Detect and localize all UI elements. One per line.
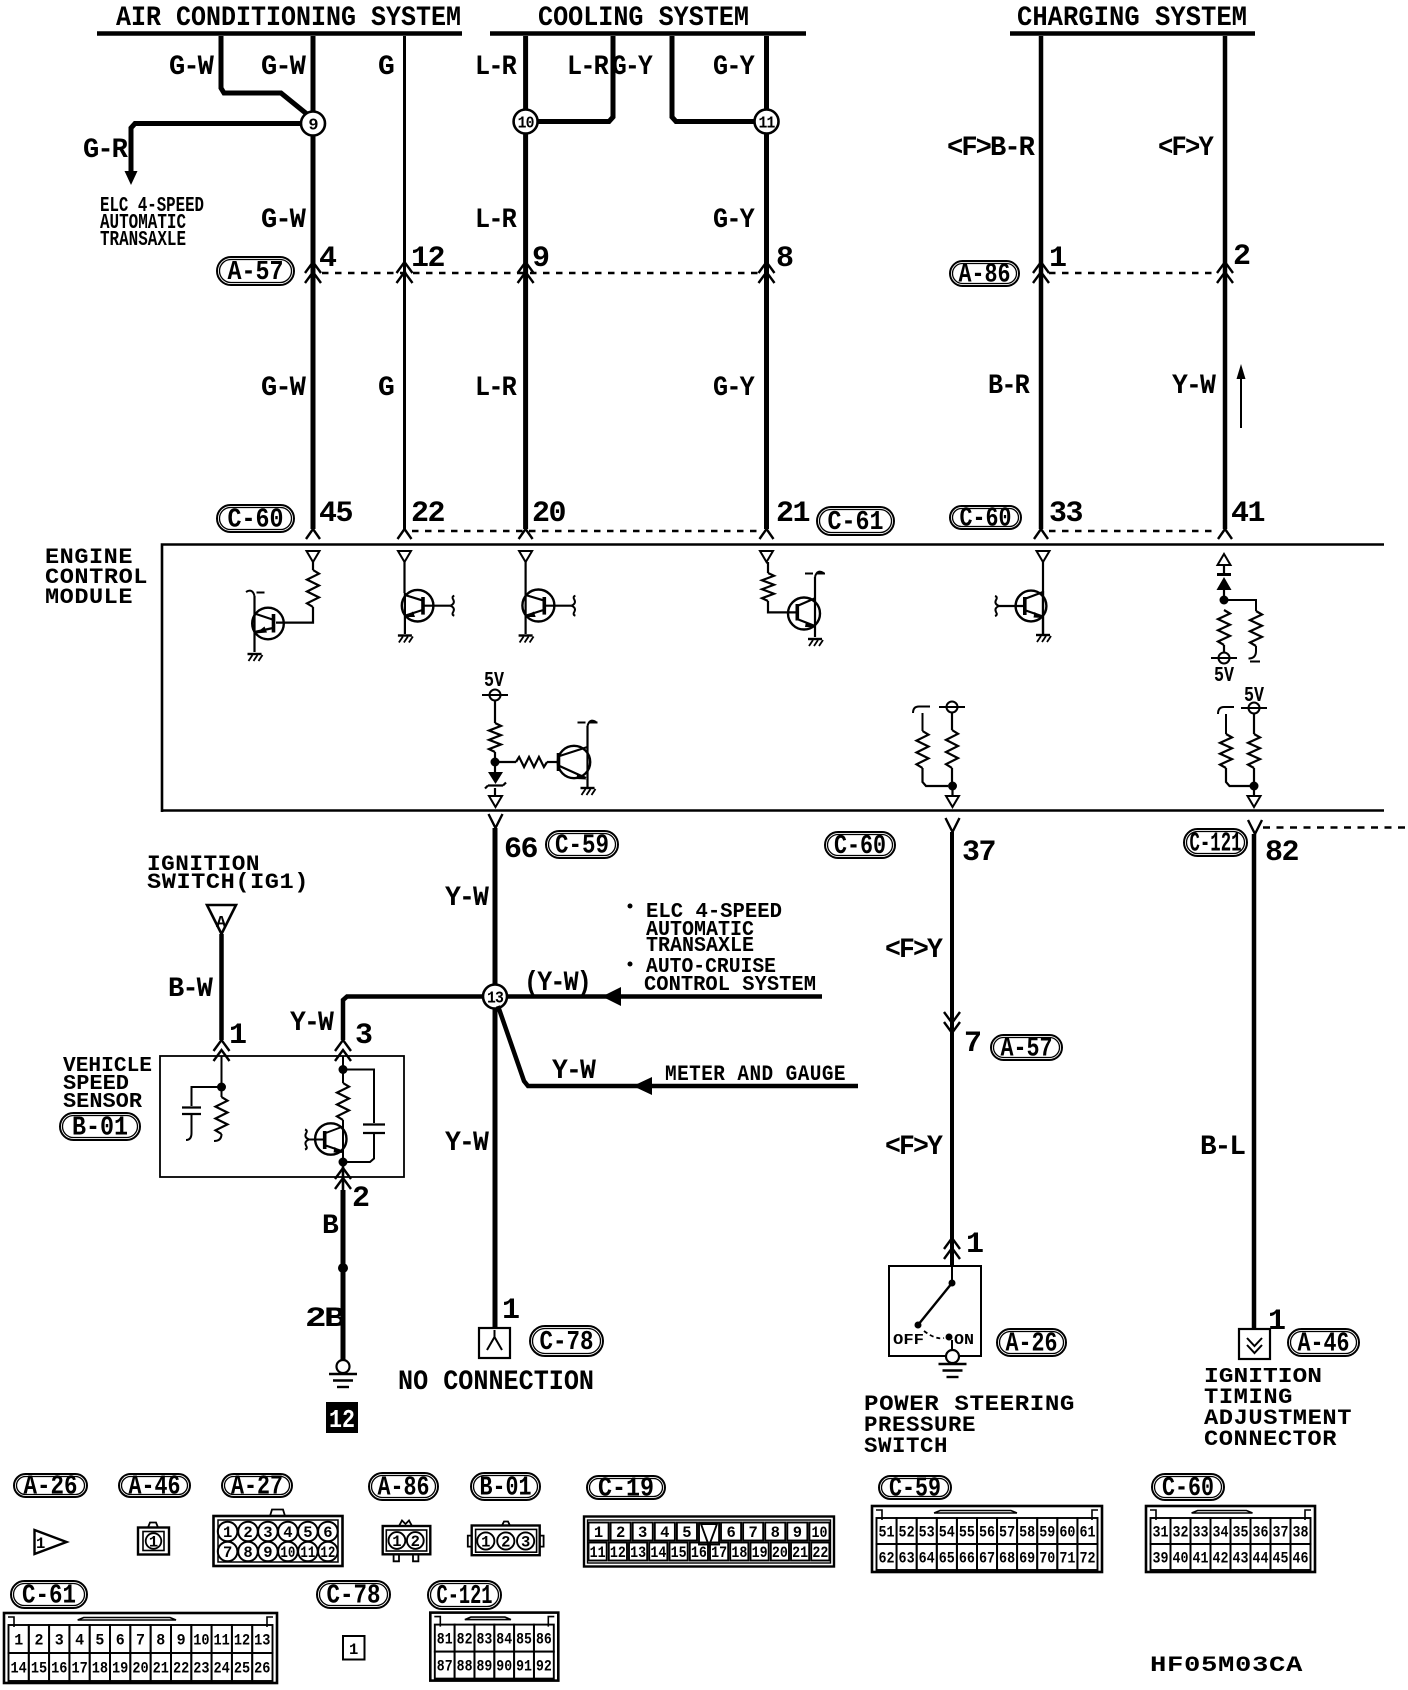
svg-text:89: 89: [476, 1658, 492, 1676]
svg-text:6: 6: [323, 1524, 332, 1542]
diode D41: [1217, 573, 1231, 576]
svg-text:6: 6: [726, 1524, 735, 1542]
ECM box outline: [162, 545, 1384, 813]
svg-text:1: 1: [966, 1228, 983, 1262]
wire R82a to junction: [1226, 768, 1250, 786]
connector label C-59: [879, 1476, 951, 1499]
svg-text:1: 1: [481, 1534, 490, 1552]
svg-text:C-61: C-61: [828, 508, 884, 538]
connector label A-46: [119, 1474, 190, 1497]
wire G-W main drop: [311, 36, 316, 112]
dashed travel arc: [924, 1331, 944, 1338]
resistor sensor R2: [342, 1070, 344, 1084]
junction dot sensor pin2: [339, 1158, 348, 1167]
wire diode to junction: [1223, 590, 1225, 600]
svg-text:C-60: C-60: [960, 505, 1012, 535]
wire pin2 exit: [342, 1162, 345, 1190]
connector label C-61: [817, 507, 894, 535]
wire Y-W from node13 to sensor pin3: [343, 997, 483, 1041]
svg-text:37: 37: [962, 836, 995, 870]
svg-text:A-27: A-27: [231, 1473, 283, 1503]
svg-text:11: 11: [300, 1544, 315, 1562]
svg-text:4: 4: [283, 1524, 292, 1542]
connector label A-27: [222, 1474, 292, 1497]
svg-text:83: 83: [476, 1631, 492, 1649]
wire Y-W to meter and gauge: [498, 1006, 858, 1086]
svg-text:A-26: A-26: [1006, 1330, 1058, 1360]
svg-text:C-60: C-60: [1162, 1474, 1214, 1504]
node 10 junction: [514, 110, 538, 134]
wire L-R branch into node 10: [538, 36, 613, 122]
svg-text:HF05M03CA: HF05M03CA: [1150, 1653, 1303, 1678]
svg-text:91: 91: [516, 1658, 532, 1676]
svg-text:13: 13: [630, 1544, 646, 1562]
power steering pressure switch box: [889, 1266, 981, 1356]
svg-text:C-60: C-60: [228, 506, 284, 536]
svg-text:L-R: L-R: [567, 52, 609, 83]
svg-text:10: 10: [193, 1632, 209, 1650]
svg-text:A-86: A-86: [378, 1474, 430, 1504]
svg-text:20: 20: [772, 1544, 788, 1562]
svg-text:SENSOR: SENSOR: [63, 1091, 142, 1114]
svg-text:72: 72: [1079, 1550, 1095, 1568]
svg-text:SWITCH(IG1): SWITCH(IG1): [147, 870, 309, 895]
svg-text:A-57: A-57: [1001, 1035, 1053, 1065]
svg-text:11: 11: [214, 1632, 230, 1650]
svg-text:MODULE: MODULE: [45, 585, 133, 610]
svg-text:2: 2: [352, 1182, 369, 1216]
transistor Q33: [1042, 591, 1044, 634]
svg-text:Y-W: Y-W: [445, 1128, 489, 1159]
svg-text:Y-W: Y-W: [1172, 371, 1216, 402]
svg-text:51: 51: [878, 1524, 894, 1542]
svg-text:36: 36: [1253, 1524, 1269, 1542]
junction dot pin37: [948, 782, 957, 791]
junction dot ground wire: [338, 1263, 348, 1273]
svg-text:22: 22: [812, 1544, 828, 1562]
svg-text:38: 38: [1293, 1524, 1309, 1542]
svg-text:Y-W: Y-W: [290, 1008, 334, 1039]
svg-text:7: 7: [223, 1544, 232, 1562]
svg-text:C-61: C-61: [22, 1582, 76, 1612]
svg-text:12: 12: [411, 242, 444, 276]
svg-text:TRANSAXLE: TRANSAXLE: [646, 935, 754, 958]
svg-text:2B: 2B: [305, 1304, 346, 1335]
transistor Q21: [814, 577, 816, 637]
bullet ELC: [628, 904, 633, 909]
chevrons sensor pin 3: [335, 1040, 351, 1061]
svg-text:8: 8: [771, 1524, 780, 1542]
svg-text:52: 52: [899, 1524, 915, 1542]
ECM pin 66 output triangle: [489, 796, 502, 807]
wire fork pin 37 below ECM: [946, 818, 960, 832]
vehicle speed sensor box: [160, 1056, 404, 1177]
ECM pin 37 output triangle: [946, 796, 959, 807]
svg-text:L-R: L-R: [475, 373, 517, 404]
wire junction to pin: [1253, 786, 1255, 796]
wire L-R drop to node 10: [523, 36, 528, 110]
resistor R41a: [1218, 610, 1230, 645]
svg-text:8: 8: [776, 242, 793, 276]
svg-text:C-121: C-121: [1190, 830, 1242, 860]
wire G-Y branch into node 11: [672, 36, 754, 122]
no connection terminal box C-78: [479, 1328, 510, 1358]
svg-text:A-46: A-46: [129, 1473, 181, 1503]
svg-text:39: 39: [1153, 1550, 1169, 1568]
wire Y-W pin66 down to node 13: [493, 828, 498, 1328]
svg-text:4: 4: [75, 1632, 84, 1650]
connector C-19 symbol: [584, 1517, 834, 1567]
connector label C-59: [546, 831, 618, 858]
wire resistor to junction: [494, 752, 496, 762]
svg-text:C-19: C-19: [598, 1475, 654, 1505]
svg-text:G: G: [378, 52, 394, 83]
resistor sensor R1: [221, 1087, 223, 1097]
connector label A-57 inline: [991, 1035, 1062, 1060]
svg-text:9: 9: [177, 1632, 186, 1650]
wire supply to resistor: [494, 701, 496, 724]
connector label C-60 right: [950, 506, 1021, 529]
svg-text:22: 22: [411, 497, 444, 531]
direction arrow up: [1240, 378, 1242, 428]
svg-text:1: 1: [149, 1534, 158, 1552]
svg-text:7: 7: [136, 1632, 145, 1650]
svg-text:METER AND GAUGE: METER AND GAUGE: [665, 1062, 846, 1087]
wire pin3 inside sensor: [342, 1056, 344, 1070]
svg-text:C-78: C-78: [540, 1328, 594, 1358]
wire pin22 to transistor: [403, 562, 405, 593]
svg-text:19: 19: [112, 1660, 128, 1678]
wire pin45 to resistor: [312, 562, 314, 570]
svg-text:B-01: B-01: [72, 1114, 128, 1144]
svg-text:31: 31: [1153, 1524, 1169, 1542]
svg-text:Y-W: Y-W: [445, 883, 489, 914]
svg-text:62: 62: [878, 1550, 894, 1568]
wire to supply: [1223, 645, 1225, 653]
svg-text:41: 41: [1231, 497, 1264, 531]
svg-text:1: 1: [349, 1641, 358, 1659]
wire R37a to junction: [923, 768, 949, 786]
wire R37b to junction: [951, 768, 953, 786]
node 11 junction: [755, 110, 779, 134]
wire zener to pin triangle: [494, 788, 496, 796]
ECM pin 45 input triangle: [307, 551, 320, 562]
svg-text:46: 46: [1293, 1550, 1309, 1568]
resistor R82b: [1248, 734, 1260, 768]
svg-text:1: 1: [229, 1019, 246, 1053]
chevrons A-57 pin 7: [944, 1012, 960, 1033]
svg-text:68: 68: [999, 1550, 1015, 1568]
wire resistor to base: [276, 607, 313, 623]
chevrons sensor pin 2: [335, 1168, 351, 1189]
chevrons pin 12: [397, 262, 413, 283]
svg-text:15: 15: [671, 1544, 687, 1562]
svg-text:AIR CONDITIONING SYSTEM: AIR CONDITIONING SYSTEM: [116, 3, 461, 34]
svg-text:57: 57: [999, 1524, 1015, 1542]
svg-text:3: 3: [355, 1019, 372, 1053]
wire Y-W drop: [1223, 36, 1228, 529]
svg-text:2: 2: [616, 1524, 625, 1542]
svg-text:G: G: [378, 373, 394, 404]
svg-text:5: 5: [682, 1524, 691, 1542]
arrowhead into node13: [602, 987, 621, 1006]
svg-text:7: 7: [749, 1524, 758, 1542]
resistor R37b: [946, 730, 958, 768]
svg-text:3: 3: [638, 1524, 647, 1542]
svg-text:14: 14: [650, 1544, 666, 1562]
svg-text:41: 41: [1193, 1550, 1209, 1568]
switch contact and lever: [951, 1266, 953, 1281]
svg-text:1: 1: [223, 1524, 232, 1542]
bullet AUTO-CRUISE: [628, 962, 633, 967]
svg-text:54: 54: [939, 1524, 955, 1542]
body ground 12: [337, 1360, 350, 1373]
connector A-26 symbol: [35, 1530, 67, 1554]
svg-text:CHARGING SYSTEM: CHARGING SYSTEM: [1017, 3, 1247, 34]
hook above R37a: [913, 707, 930, 732]
wire supply to R82b: [1253, 714, 1255, 734]
resistor R41b: [1250, 611, 1262, 646]
svg-text:TRANSAXLE: TRANSAXLE: [100, 229, 186, 252]
chevrons pin 2: [1217, 262, 1233, 283]
svg-text:L-R: L-R: [475, 52, 517, 83]
svg-text:10: 10: [518, 115, 535, 134]
dashed line C-121: [1263, 826, 1408, 828]
connector C-60 symbol: [1146, 1506, 1315, 1572]
svg-text:12: 12: [320, 1544, 335, 1562]
svg-text:16: 16: [691, 1544, 707, 1562]
svg-text:G-R: G-R: [83, 135, 128, 166]
svg-text:82: 82: [1265, 836, 1298, 870]
svg-text:20: 20: [532, 497, 565, 531]
connector label A-26: [14, 1474, 87, 1497]
wire junction to pin: [951, 786, 953, 796]
wire G-W below node 9: [311, 135, 316, 529]
svg-text:20: 20: [132, 1660, 148, 1678]
svg-text:B-W: B-W: [168, 974, 213, 1005]
svg-text:B: B: [322, 1211, 339, 1242]
svg-text:L-R: L-R: [475, 205, 517, 236]
wire B-R drop: [1039, 36, 1044, 529]
wire fork pin 82 below ECM: [1248, 820, 1262, 834]
connector label C-60: [1152, 1474, 1224, 1500]
svg-text:43: 43: [1233, 1550, 1249, 1568]
wire G-R to ELC transaxle: [131, 124, 302, 173]
connector label C-121: [428, 1581, 501, 1609]
connector label B-01: [60, 1113, 140, 1140]
svg-text:G-W: G-W: [261, 52, 306, 83]
svg-text:11: 11: [759, 115, 776, 134]
svg-text:C-60: C-60: [834, 832, 886, 862]
wire B-W: [219, 934, 224, 1040]
svg-text:88: 88: [457, 1658, 473, 1676]
svg-text:4: 4: [319, 242, 337, 276]
chevrons pin 9: [518, 262, 534, 283]
svg-text:3: 3: [521, 1534, 530, 1552]
connector C-61 symbol: [4, 1613, 277, 1683]
node 13 junction: [483, 985, 507, 1009]
connector label C-61: [11, 1581, 87, 1608]
ground Q66 emitter: [581, 787, 595, 789]
wire to right resistor: [1224, 600, 1256, 611]
connector A-46 symbol: [148, 1523, 158, 1528]
connector C-78 symbol: [343, 1636, 365, 1660]
svg-text:40: 40: [1173, 1550, 1189, 1568]
svg-text:65: 65: [939, 1550, 955, 1568]
svg-text:21: 21: [776, 497, 809, 531]
svg-text:10: 10: [280, 1544, 295, 1562]
svg-text:9: 9: [532, 242, 549, 276]
ground Q22 emitter: [398, 634, 412, 636]
dashed line A-86: [1049, 272, 1217, 274]
svg-text:SWITCH: SWITCH: [864, 1434, 948, 1459]
connector label C-121 mid: [1184, 829, 1247, 856]
svg-text:23: 23: [193, 1660, 209, 1678]
svg-text:13: 13: [487, 990, 504, 1009]
wire supply to R37b: [951, 713, 953, 730]
junction dot pin82: [1250, 782, 1259, 791]
svg-text:6: 6: [116, 1632, 125, 1650]
svg-text:9: 9: [308, 117, 318, 136]
svg-text:53: 53: [919, 1524, 935, 1542]
ignition timing adjustment connector box A-46: [1239, 1329, 1270, 1359]
svg-text:CONNECTOR: CONNECTOR: [1204, 1427, 1337, 1452]
arrowhead G-R: [125, 171, 138, 185]
svg-text:G-W: G-W: [169, 52, 214, 83]
svg-text:<F>Y: <F>Y: [1158, 133, 1214, 164]
junction dot sensor pin3: [339, 1065, 348, 1074]
ground Q21 emitter: [808, 638, 822, 640]
svg-text:NO CONNECTION: NO CONNECTION: [398, 1367, 594, 1398]
connector label C-60 mid: [825, 832, 895, 858]
svg-text:C-121: C-121: [437, 1582, 493, 1612]
svg-text:2: 2: [411, 1533, 420, 1551]
svg-text:1: 1: [1049, 242, 1066, 276]
svg-text:A-26: A-26: [24, 1473, 78, 1503]
svg-text:B-R: B-R: [988, 371, 1030, 402]
junction dot: [1220, 596, 1229, 605]
resistor pin 45: [307, 570, 319, 607]
svg-text:16: 16: [51, 1660, 67, 1678]
connector A-27 symbol: [270, 1510, 285, 1517]
connector label A-46 inline: [1288, 1329, 1359, 1356]
wire L-R below node 10: [523, 133, 528, 529]
wire end fork pin 45: [306, 529, 320, 539]
dashed line C-60 right: [1049, 530, 1217, 532]
svg-text:1: 1: [502, 1294, 519, 1328]
svg-text:B-L: B-L: [1200, 1132, 1245, 1163]
chevrons switch pin 1: [944, 1238, 960, 1259]
connector label A-86: [950, 261, 1019, 286]
svg-text:87: 87: [437, 1658, 453, 1676]
transistor Q22: [404, 593, 406, 634]
switch ground: [951, 1340, 953, 1350]
svg-text:70: 70: [1039, 1550, 1055, 1568]
ECM pin 41 output triangle: [1218, 554, 1231, 565]
connector label C-78 inline: [530, 1326, 603, 1356]
connector label A-26 inline: [997, 1329, 1066, 1356]
svg-text:56: 56: [979, 1524, 995, 1542]
5V supply pin41: [1219, 653, 1230, 664]
svg-text:A-57: A-57: [228, 258, 284, 288]
supply pin37: [947, 702, 958, 713]
svg-text:35: 35: [1233, 1524, 1249, 1542]
svg-text:17: 17: [71, 1660, 87, 1678]
svg-text:24: 24: [214, 1660, 230, 1678]
svg-text:C-59: C-59: [889, 1475, 941, 1505]
base resistor R66b: [499, 761, 516, 763]
ground Q45 emitter: [248, 653, 262, 655]
connector B-01 symbol: [502, 1522, 510, 1526]
svg-text:OFF: OFF: [893, 1332, 924, 1349]
ECM pin 20 input triangle: [519, 551, 532, 562]
ECM pin 22 input triangle: [398, 551, 411, 562]
svg-text:G-Y: G-Y: [713, 52, 755, 83]
svg-text:1: 1: [36, 1535, 45, 1553]
svg-text:10: 10: [812, 1524, 828, 1542]
arrowhead meter: [633, 1077, 652, 1095]
ECM pin 33 input triangle: [1037, 551, 1050, 562]
ignition feed triangle A: [207, 905, 236, 934]
svg-text:11: 11: [590, 1544, 606, 1562]
svg-text:<F>B-R: <F>B-R: [947, 133, 1035, 164]
svg-text:G-Y: G-Y: [612, 52, 653, 83]
svg-text:63: 63: [899, 1550, 915, 1568]
svg-text:7: 7: [964, 1027, 981, 1061]
svg-text:21: 21: [792, 1544, 808, 1562]
chevrons sensor pin 1: [214, 1040, 230, 1061]
svg-text:71: 71: [1059, 1550, 1075, 1568]
wire G-Y below node 11: [764, 133, 769, 529]
svg-text:14: 14: [11, 1660, 27, 1678]
svg-text:84: 84: [496, 1631, 512, 1649]
junction dot pin66: [491, 758, 500, 767]
ground Q20 emitter: [519, 634, 533, 636]
supply pin82: [1249, 703, 1260, 714]
svg-text:9: 9: [263, 1544, 272, 1562]
svg-text:13: 13: [254, 1632, 270, 1650]
svg-text:66: 66: [959, 1550, 975, 1568]
connector label B-01: [471, 1473, 540, 1500]
wire G-Y drop to node 11: [764, 36, 769, 110]
svg-text:2: 2: [501, 1534, 510, 1552]
dashed line C-60 left: [412, 530, 760, 532]
svg-text:8: 8: [243, 1544, 252, 1562]
connector A-86 symbol: [399, 1521, 412, 1527]
svg-text:69: 69: [1019, 1550, 1035, 1568]
svg-text:17: 17: [711, 1544, 727, 1562]
connector label C-60 left: [217, 505, 294, 532]
svg-text:5: 5: [303, 1524, 312, 1542]
svg-text:G-W: G-W: [261, 205, 306, 236]
svg-text:(Y-W): (Y-W): [524, 968, 590, 999]
connector C-121 symbol: [430, 1613, 558, 1681]
transistor Q45: [253, 596, 255, 652]
svg-text:66: 66: [504, 833, 537, 867]
svg-text:2: 2: [243, 1524, 252, 1542]
svg-text:<F>Y: <F>Y: [885, 935, 943, 966]
svg-text:18: 18: [731, 1544, 747, 1562]
svg-text:COOLING SYSTEM: COOLING SYSTEM: [538, 3, 749, 34]
svg-text:25: 25: [234, 1660, 250, 1678]
hook above R82a: [1218, 707, 1234, 734]
wire pin33 to transistor: [1042, 562, 1044, 591]
ECM pin 82 output triangle: [1248, 796, 1261, 807]
svg-text:34: 34: [1213, 1524, 1229, 1542]
wire R82b to junction: [1253, 768, 1255, 786]
chevrons pin 1: [1033, 262, 1049, 283]
connector C-59 symbol: [872, 1506, 1102, 1572]
